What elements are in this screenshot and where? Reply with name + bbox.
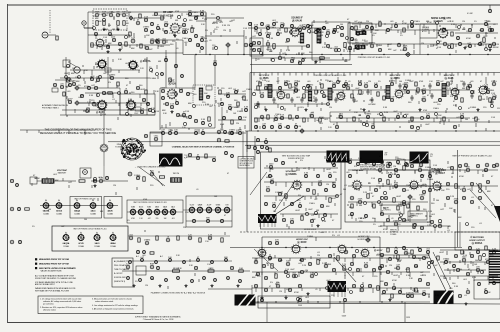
capacitor C156: [328, 254, 331, 257]
wire row 28: [252, 257, 430, 259]
wire CRT diagonal lead: [476, 183, 500, 212]
capacitor C-br13: [492, 249, 497, 254]
resistor R fuse 2A3F: [208, 267, 214, 272]
capacitor C211: [477, 282, 480, 285]
wire B+ drop 600V: [343, 302, 345, 313]
capacitor C74: [126, 264, 130, 269]
ground G5: [118, 48, 121, 51]
resistor R-sa4: [417, 206, 419, 210]
capacitor C57: [223, 130, 226, 133]
capacitor C-rf1: [156, 25, 160, 30]
wire osc left edge: [159, 88, 161, 130]
label ION TRAP: [57, 169, 68, 172]
wire row 12: [254, 89, 300, 91]
label part of PCB PC-404: [452, 155, 491, 158]
svg-text:10K: 10K: [226, 93, 230, 95]
tube V16 sync amp: [352, 180, 363, 191]
label A-2: [160, 255, 163, 258]
capacitor C-ifb7: [365, 114, 372, 119]
capacitor C-ifh13: [358, 81, 363, 86]
balun box B2: [52, 88, 58, 92]
resistor R17: [25, 208, 30, 210]
wire audio tap 456: [455, 24, 457, 28]
capacitor C-ifh23c: [438, 98, 441, 101]
capacitor C201: [194, 119, 197, 122]
wire heater row4: [183, 209, 232, 211]
wire W9: [103, 152, 105, 166]
capacitor C-h42: [220, 219, 223, 222]
svg-text:.0047: .0047: [148, 49, 153, 51]
wire IF drop 452: [451, 77, 453, 84]
svg-text:1 MEG: 1 MEG: [143, 27, 150, 29]
capacitor C140: [286, 261, 290, 266]
capacitor C-sa11: [420, 174, 423, 177]
tube base pins row3 x141: [138, 209, 144, 215]
balun box B1: [63, 60, 70, 67]
svg-text:.0047: .0047: [295, 210, 301, 212]
resistor R39: [479, 256, 481, 260]
capacitor C-ifc7: [492, 95, 496, 100]
test point TP7: [366, 238, 370, 242]
svg-text:1.5K: 1.5K: [250, 49, 255, 51]
resistor R29: [479, 184, 481, 188]
capacitor C-sa8: [348, 174, 351, 177]
resistor R-tun2: [117, 21, 119, 26]
resistor R43: [269, 148, 271, 152]
capacitor C-str240: [239, 280, 242, 283]
svg-text:1.5K: 1.5K: [433, 165, 438, 167]
wire tuner right edge: [205, 12, 207, 55]
svg-text:1.5K: 1.5K: [103, 37, 108, 39]
label 4.5MC: [352, 40, 359, 42]
label MAGNET: [58, 172, 67, 175]
capacitor C38: [278, 56, 281, 59]
capacitor C-vm421: [419, 163, 423, 167]
capacitor C191: [179, 89, 182, 92]
svg-text:HORIZ HOLD: HORIZ HOLD: [304, 229, 317, 231]
ground G11: [260, 296, 263, 299]
tube V22 horiz AFC: [291, 244, 301, 254]
wire separator lower: [245, 144, 500, 146]
annotation texture bottomright: [255, 251, 493, 297]
wire tuner row e: [205, 35, 244, 37]
capacitor C-br4: [418, 248, 421, 251]
capacitor C-if10: [346, 85, 351, 90]
coil L 4.5MC trap: [355, 45, 365, 49]
wire filament upper row: [126, 260, 232, 262]
capacitor C166: [368, 284, 371, 287]
capacitor C-br2: [402, 246, 405, 249]
capacitor C51: [410, 125, 413, 128]
svg-text:.0047: .0047: [125, 63, 131, 65]
capacitor C-ng4: [348, 46, 351, 49]
svg-text:.001: .001: [307, 81, 311, 83]
capacitor C-if8b: [314, 97, 317, 103]
resistor R-if21: [461, 98, 463, 102]
svg-text:125MA: 125MA: [110, 245, 116, 248]
svg-text:120MA: 120MA: [107, 213, 113, 216]
tube V17 AGC keyer: [409, 180, 419, 190]
resistor R5: [108, 92, 113, 94]
resistor R-ifb12: [443, 117, 445, 121]
capacitor C28: [252, 48, 255, 51]
ground fil 160: [158, 284, 161, 287]
thermistor box: [136, 266, 146, 275]
svg-text:AND NO SIGNAL INPUT: AND NO SIGNAL INPUT: [35, 283, 56, 286]
svg-text:5%: 5%: [298, 195, 301, 197]
coil L width control: [171, 178, 182, 183]
svg-text:5%: 5%: [32, 226, 35, 228]
svg-text:otherwise noted.: otherwise noted.: [43, 309, 56, 312]
resistor R-br0: [387, 248, 389, 252]
test point TP5: [406, 52, 410, 56]
svg-text:6CU5: 6CU5: [78, 243, 84, 245]
capacitor C-if5b: [290, 97, 293, 103]
tube base pins row1 x59: [56, 203, 62, 209]
capacitor C167: [384, 282, 387, 285]
transformer T horiz osc: [328, 281, 347, 292]
wire det drop: [254, 136, 256, 160]
resistor R28: [455, 184, 457, 188]
capacitor C-str166: [165, 279, 168, 282]
capacitor C-ng2: [365, 25, 368, 28]
svg-text:5%: 5%: [300, 160, 303, 162]
wire mixer feed 1: [165, 50, 167, 88]
capacitor C173: [378, 266, 381, 269]
tube V3 UHF oscillator: [97, 59, 106, 68]
capacitor C-fil4: [166, 237, 170, 242]
svg-text:FILAMENT CONNECTIONS USED IN “: FILAMENT CONNECTIONS USED IN “A-1” AND “…: [151, 292, 206, 295]
resistor R12: [289, 115, 291, 119]
capacitor C39: [290, 58, 294, 63]
svg-text:© Howard W. Sams & Co., Inc. 1: © Howard W. Sams & Co., Inc. 1958: [143, 318, 174, 321]
capacitor C6: [150, 39, 154, 44]
tube V5 mixer 6AF4: [97, 100, 107, 110]
capacitor C-tun0: [95, 12, 100, 17]
label 6CG7: [435, 171, 445, 175]
wire audio tap 376: [375, 24, 377, 28]
capacitor C-ifc5: [468, 83, 472, 88]
wire tuner left lower: [87, 35, 89, 53]
svg-text:220: 220: [366, 21, 369, 23]
annotation texture frontend: [66, 59, 162, 117]
svg-text:1 MEG: 1 MEG: [260, 252, 267, 254]
capacitor C112: [458, 164, 461, 167]
wire ion trap row: [54, 180, 76, 182]
capacitor C55: [295, 115, 298, 118]
svg-text:47: 47: [224, 215, 226, 217]
wire T-vert pin 275: [274, 223, 276, 227]
resistor R-aud0: [355, 26, 357, 30]
tube base diagram 6EM5 row4: [215, 205, 221, 213]
svg-text:10K: 10K: [372, 161, 376, 163]
capacitor C-od1: [188, 153, 191, 156]
capacitor C158: [332, 268, 335, 271]
wire tuner top rail: [88, 11, 206, 13]
resistor R-if9: [321, 84, 323, 88]
svg-text:5%: 5%: [270, 282, 273, 284]
capacitor C-vm407: [405, 163, 409, 167]
annotation texture iontrap2: [32, 174, 92, 188]
wire osc bottom rail: [160, 127, 215, 129]
capacitor C-ifh11c: [342, 84, 345, 87]
resistor R-oc6: [237, 102, 239, 106]
wire T-horiz pin 330: [329, 292, 331, 297]
tube V21 oscillator 6J6: [167, 89, 178, 100]
wire frontend right drop: [146, 57, 148, 115]
resistor R31: [271, 264, 273, 268]
terminal B+ top right: [488, 9, 491, 12]
capacitor C217: [161, 73, 164, 76]
tube base diagram 6AW8 row4: [197, 204, 203, 213]
resistor R-br12: [485, 246, 487, 250]
annotation texture frontend3: [66, 63, 158, 120]
wire vert to bus: [459, 222, 461, 247]
wire IF board pin stubs: [254, 73, 494, 76]
resistor R-if15: [377, 92, 379, 96]
annotation texture ifstrip3: [252, 80, 495, 130]
wire yoke diagonal lead: [139, 167, 165, 186]
annotation texture osc: [163, 87, 252, 134]
wire bus drop right: [404, 302, 406, 322]
svg-text:.001: .001: [171, 218, 174, 220]
svg-text:.047: .047: [434, 265, 438, 267]
capacitor C-ifh18b: [398, 83, 401, 89]
resistor R-ifh16: [383, 96, 385, 100]
tube base pins row1 x46: [43, 203, 49, 209]
label PCB PC-303 strip: [314, 74, 347, 77]
svg-text:5%: 5%: [301, 107, 304, 109]
svg-text:2 MEG: 2 MEG: [393, 221, 400, 223]
capacitor C135: [438, 223, 443, 228]
heater group box right: [186, 196, 232, 227]
wire row 16: [254, 117, 330, 119]
svg-text:ION TRAP: ION TRAP: [57, 169, 68, 172]
capacitor C-fil0: [129, 235, 134, 240]
capacitor C-vs2: [290, 202, 293, 205]
wire tuner bottom rail: [60, 114, 155, 116]
capacitor C83: [278, 192, 281, 195]
resistor R34: [337, 256, 339, 260]
svg-text:3.3K: 3.3K: [268, 258, 273, 260]
resistor R8: [320, 57, 325, 59]
test point TP4: [75, 101, 79, 105]
wire row 17: [336, 117, 470, 119]
svg-text:560: 560: [84, 219, 87, 221]
svg-text:VERT HOLD: VERT HOLD: [390, 230, 400, 232]
tube base diagram 6CB6 row3: [130, 207, 136, 221]
svg-text:1.5K: 1.5K: [102, 114, 107, 116]
CRT bell corner: [494, 206, 500, 222]
resistor R-tun3: [123, 21, 125, 26]
annotation texture tuner3: [93, 13, 248, 50]
wire bottom right top row: [440, 249, 498, 251]
annotation texture sync: [266, 158, 452, 227]
capacitor C37: [334, 47, 339, 52]
svg-text:120: 120: [326, 184, 329, 186]
wire connector stubs: [27, 28, 488, 293]
svg-text:8.2K: 8.2K: [364, 263, 369, 265]
capacitor C58: [217, 138, 221, 142]
capacitor C-sb6: [340, 26, 343, 29]
capacitor C168: [392, 286, 395, 289]
svg-text:220K: 220K: [358, 199, 363, 201]
svg-text:470K: 470K: [340, 96, 345, 98]
svg-text:4COF: 4COF: [207, 205, 212, 207]
capacitor C15: [201, 47, 204, 50]
tube V7 fine tuning: [100, 144, 109, 153]
svg-text:1 MEG: 1 MEG: [427, 179, 434, 181]
label VERT OSC: [434, 170, 446, 172]
oscillator sub-box: [120, 94, 155, 115]
label NOISE GATE: [431, 17, 445, 20]
resistor R-tb6: [129, 32, 131, 36]
PCB box PC-303 heater row: [70, 197, 102, 219]
capacitor C-ifb1: [280, 115, 285, 120]
svg-text:.047: .047: [314, 199, 318, 201]
label 4BZ6: [260, 76, 270, 80]
wire T-vert pin 272: [271, 223, 273, 227]
wire W11: [37, 180, 42, 182]
svg-text:1.5K: 1.5K: [371, 178, 376, 180]
capacitor C45: [488, 27, 492, 32]
capacitor C-br5: [426, 249, 431, 254]
ground fil 134: [132, 284, 135, 287]
svg-text:5AL5: 5AL5: [171, 206, 175, 209]
svg-text:2.2K: 2.2K: [460, 114, 465, 116]
capacitor C-if2b: [256, 101, 259, 107]
capacitor C202: [201, 121, 204, 124]
resistor R-od1: [205, 154, 207, 158]
wire W1: [84, 27, 93, 29]
svg-text:560: 560: [48, 209, 51, 211]
svg-text:.01: .01: [315, 289, 318, 291]
capacitor C208: [260, 298, 263, 301]
capacitor C-ifh5: [294, 81, 299, 86]
label 6AW8A b: [412, 160, 424, 164]
resistor R4: [140, 44, 142, 48]
tube base diagram 6DC6 row3: [138, 207, 144, 221]
svg-text:1 MEG: 1 MEG: [158, 46, 165, 48]
wire row 32: [440, 275, 498, 277]
capacitor C36: [326, 44, 329, 47]
svg-text:5%: 5%: [280, 260, 283, 262]
capacitor C151: [276, 283, 280, 288]
svg-text:.0047: .0047: [67, 99, 73, 101]
capacitor C152: [288, 288, 291, 291]
resistor R7: [344, 43, 346, 48]
test point TP1: [129, 16, 133, 20]
svg-text:1.5K: 1.5K: [414, 266, 419, 268]
capacitor C13: [145, 46, 148, 49]
capacitor C29: [257, 48, 260, 51]
svg-text:47K: 47K: [266, 187, 270, 189]
svg-text:47: 47: [194, 89, 196, 91]
capacitor C-aud1: [362, 29, 367, 34]
svg-text:A-2: A-2: [160, 255, 163, 258]
wire IF drop 278: [277, 77, 279, 84]
resistor R16: [160, 176, 165, 178]
resistor R-ifb14: [475, 117, 477, 121]
svg-text:5%: 5%: [316, 259, 319, 261]
svg-text:1.5K: 1.5K: [491, 93, 496, 95]
capacitor C108: [394, 168, 397, 171]
svg-text:1.5K: 1.5K: [381, 165, 386, 167]
capacitor C-sa1: [356, 162, 359, 165]
svg-text:220: 220: [443, 28, 446, 30]
svg-text:.0047: .0047: [355, 88, 360, 90]
capacitor C-vs9: [328, 173, 331, 178]
capacitor C133: [420, 226, 423, 229]
svg-text:220: 220: [183, 227, 186, 229]
horiz output box: [455, 232, 500, 250]
svg-text:5%: 5%: [372, 35, 375, 37]
tube V18 vertical oscillator: [432, 181, 443, 192]
capacitor C-h40: [192, 219, 195, 222]
resistor R ballast 4800: [173, 268, 180, 272]
capacitor C65: [128, 172, 132, 176]
capacitor C71: [17, 207, 20, 210]
capacitor C-fil2: [144, 240, 151, 245]
transformer T vert blocking: [258, 214, 277, 223]
capacitor C-ifh6b: [300, 97, 303, 103]
capacitor C-rf6: [194, 34, 197, 37]
tube V4 6BQ7A half: [128, 60, 137, 69]
svg-text:VERT MULT: VERT MULT: [431, 169, 444, 171]
label 135V: [406, 317, 411, 319]
resistor R21: [313, 190, 315, 194]
label 4A28: [445, 76, 454, 80]
svg-text:3.3K: 3.3K: [392, 174, 397, 176]
resistor R-oc9: [231, 120, 233, 124]
wire tuner row c: [134, 17, 165, 19]
label denotes chassis ground: [135, 166, 167, 169]
label HORIZ HOLD: [358, 239, 371, 241]
capacitor C-fe1: [72, 81, 76, 86]
waveform photo W2 vertical: [327, 151, 350, 163]
capacitor C-fb4: [183, 261, 186, 264]
capacitor C196: [206, 95, 209, 98]
capacitor C-oc7: [244, 107, 249, 112]
capacitor C216: [213, 61, 218, 66]
svg-text:.01: .01: [348, 81, 351, 83]
note filament legend: [114, 260, 130, 283]
resistor R-aud3: [379, 22, 381, 26]
annotation texture osc2: [162, 88, 249, 130]
capacitor C-aud7: [410, 23, 414, 28]
ion trap magnet box: [30, 177, 37, 184]
tube base diagram 6AU8A row1: [43, 198, 50, 216]
wire section divider vertical: [251, 22, 253, 131]
svg-text:.001: .001: [325, 23, 329, 25]
svg-text:3.3K: 3.3K: [383, 107, 388, 109]
tube base pins row4 x200: [197, 207, 203, 213]
capacitor C-str178: [177, 277, 180, 280]
ground G8: [488, 48, 491, 51]
capacitor C17: [249, 43, 253, 47]
svg-text:2.2K: 2.2K: [269, 176, 274, 178]
annotation texture sound3: [249, 25, 346, 62]
wire T-vert pin 268: [267, 223, 269, 227]
svg-text:3.3K: 3.3K: [424, 257, 429, 259]
note numbered service notes: [40, 298, 139, 312]
capacitor C-aud4: [386, 28, 389, 31]
wire bottom page border: [8, 322, 500, 324]
svg-text:SOURCE 410V: SOURCE 410V: [114, 277, 127, 279]
capacitor C-tb4: [94, 32, 97, 35]
svg-text:VALUES IN LATER RUNS: VALUES IN LATER RUNS: [41, 269, 63, 272]
svg-text:6AU6: 6AU6: [163, 206, 167, 209]
